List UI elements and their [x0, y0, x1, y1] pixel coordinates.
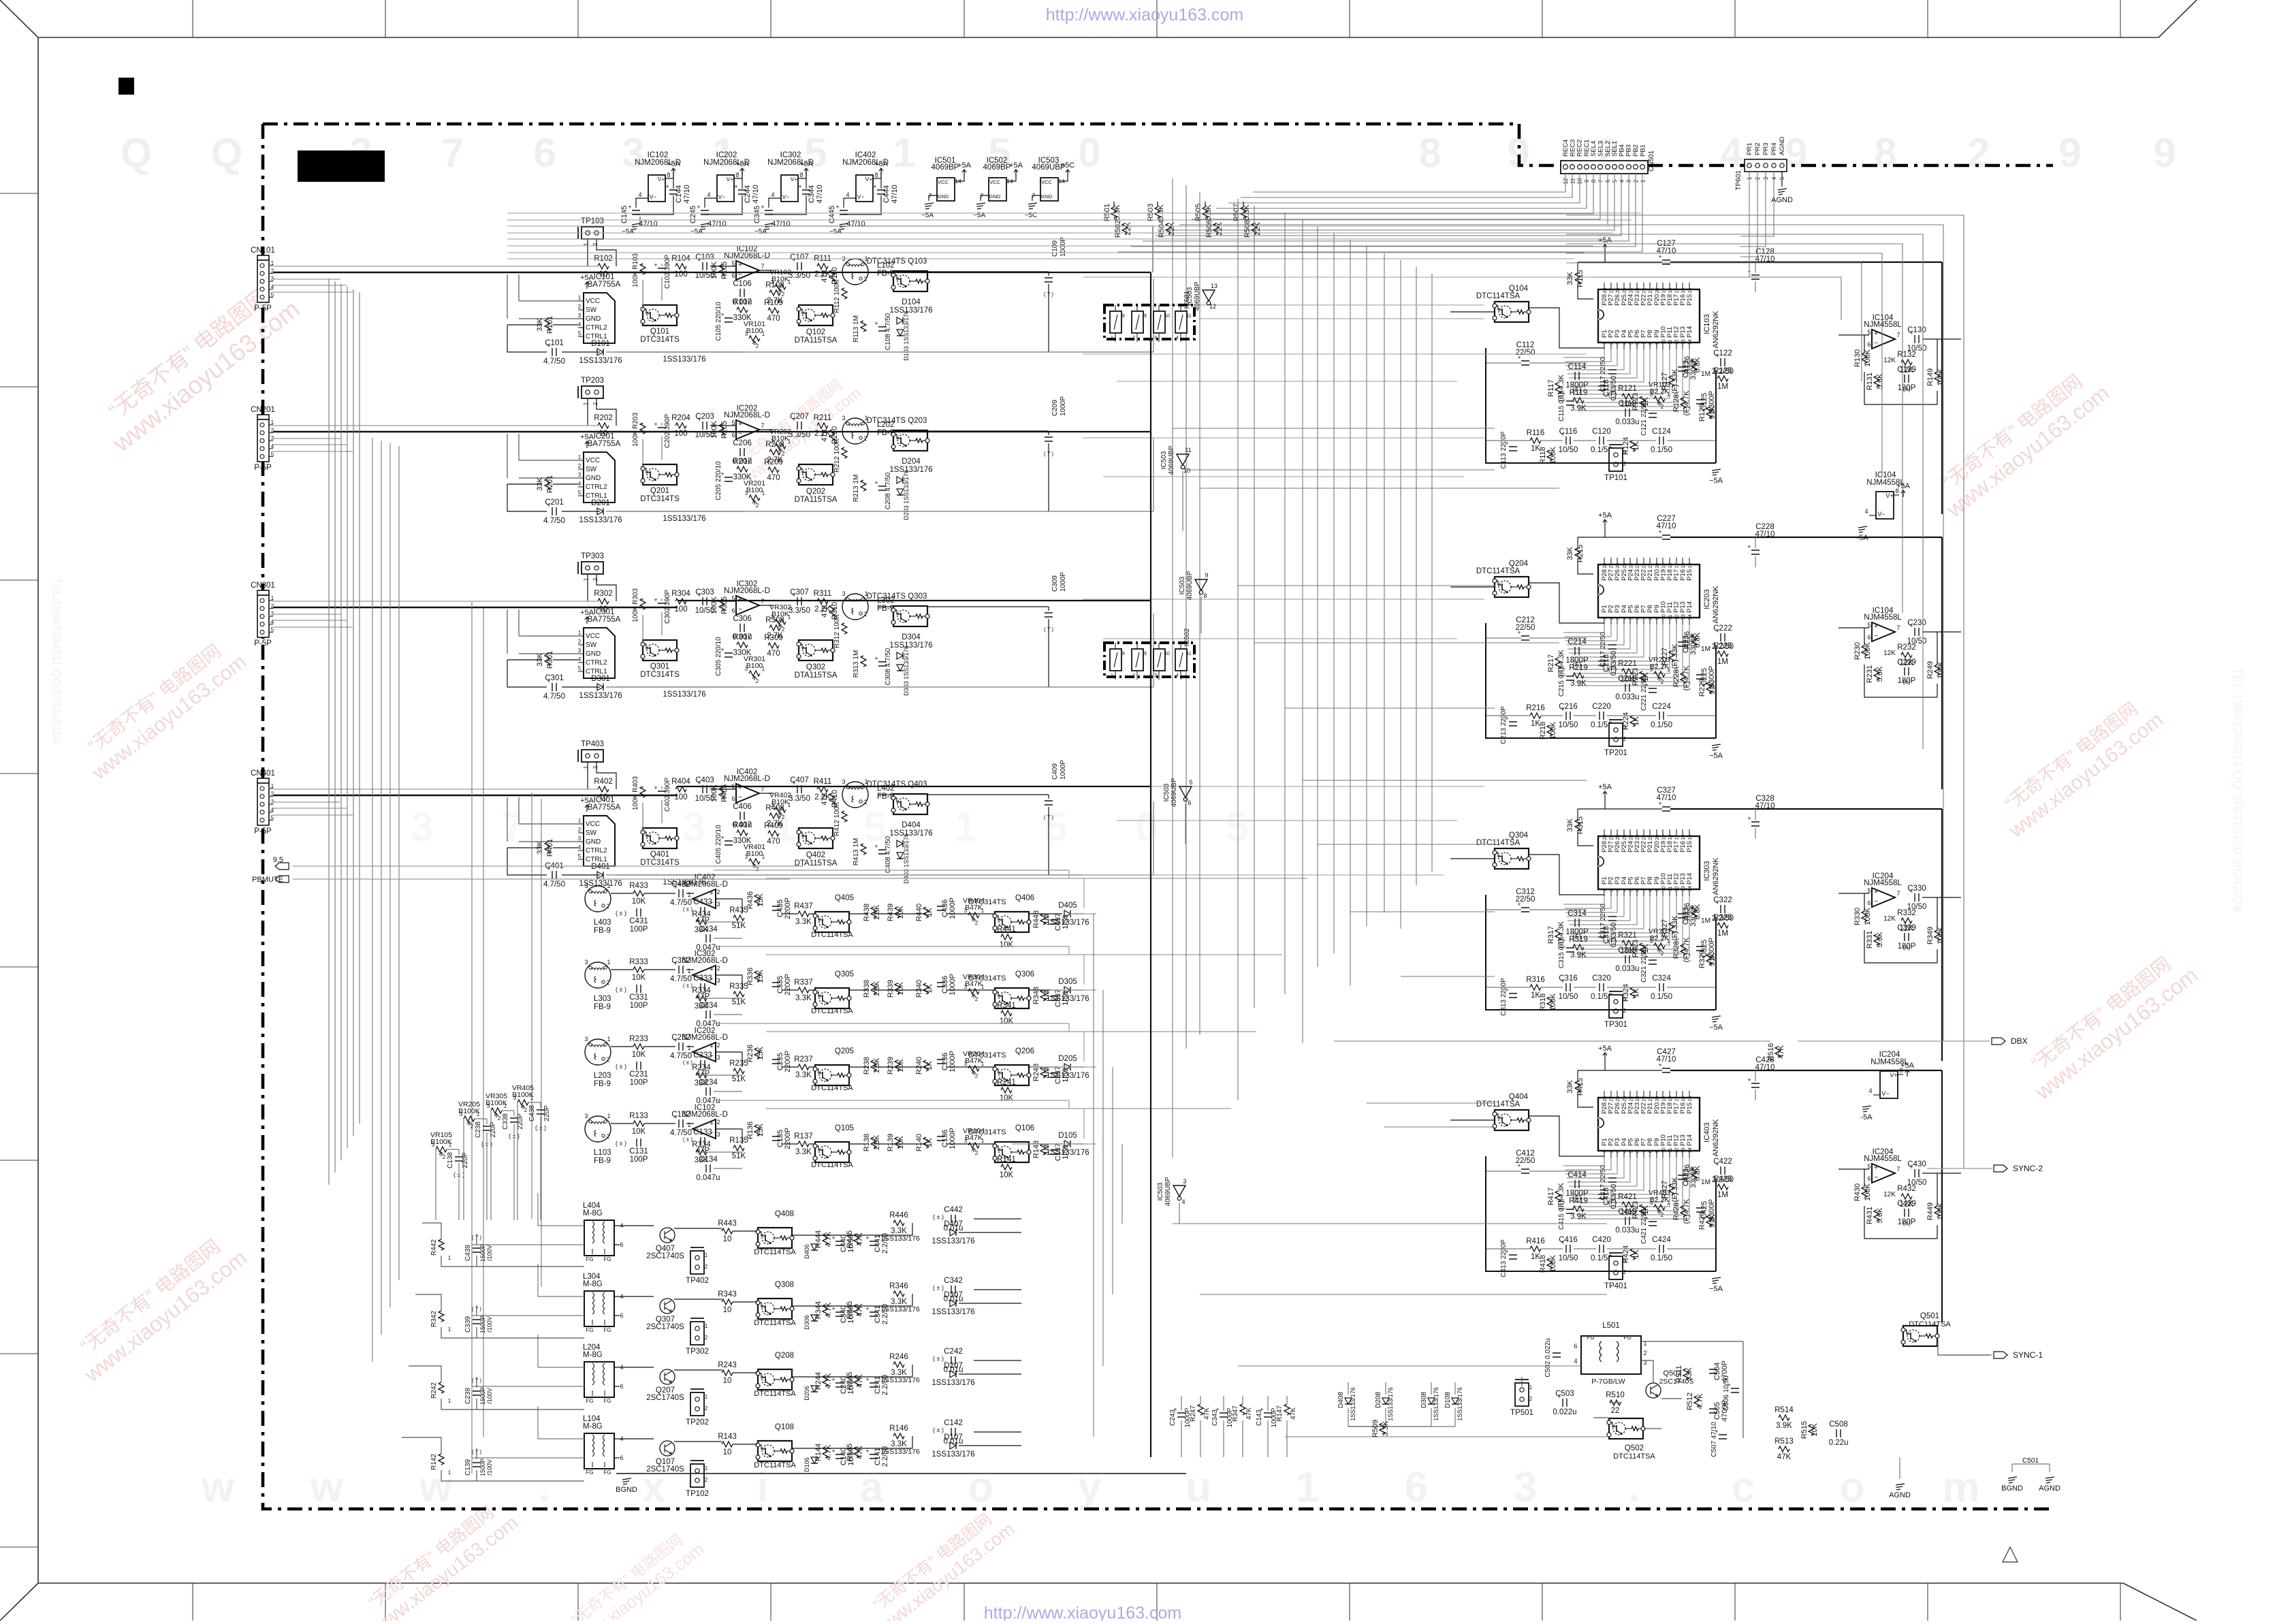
svg-text:DTC114TSA: DTC114TSA	[754, 1461, 796, 1469]
svg-text:10: 10	[723, 1448, 732, 1456]
resistor R347	[1240, 1404, 1245, 1415]
svg-text:P-5P: P-5P	[254, 639, 272, 648]
test point TP203	[582, 386, 603, 398]
svg-text:10/50: 10/50	[1559, 446, 1578, 454]
svg-text:+5A: +5A	[874, 160, 889, 168]
svg-text:47/10: 47/10	[639, 220, 658, 228]
svg-text:+: +	[1747, 1077, 1751, 1083]
capacitor C101	[552, 348, 556, 356]
svg-text:1000P: 1000P	[1060, 396, 1067, 416]
diode D308	[1428, 1398, 1435, 1404]
svg-text:2: 2	[975, 1150, 978, 1156]
capacitor C331	[637, 985, 641, 993]
svg-text:11: 11	[1186, 314, 1191, 319]
power +5A	[1905, 1070, 1909, 1077]
svg-text:47K: 47K	[1777, 1453, 1792, 1461]
svg-text:2: 2	[1623, 1269, 1627, 1275]
resistor R210	[829, 430, 835, 441]
svg-text:DTC114TSA: DTC114TSA	[754, 1390, 796, 1398]
wire cap rail	[705, 172, 742, 214]
svg-text:DTC114TSA: DTC114TSA	[1613, 1452, 1655, 1461]
svg-text:PBMUTE: PBMUTE	[252, 876, 283, 884]
resistor R213	[861, 480, 866, 491]
svg-text:5: 5	[271, 291, 274, 298]
inductor	[585, 962, 611, 988]
resistor R323	[1640, 943, 1645, 954]
svg-text:C122: C122	[1713, 349, 1732, 357]
svg-text:Q306: Q306	[1015, 970, 1034, 978]
resistor R105	[719, 265, 725, 276]
resistor R301	[545, 654, 550, 665]
resistor R246	[893, 1362, 904, 1367]
svg-text:c: c	[1732, 1464, 1755, 1511]
svg-text:3.9K: 3.9K	[1570, 951, 1587, 959]
svg-text:R209: R209	[764, 458, 783, 466]
diode D203	[897, 489, 904, 495]
svg-text:C434: C434	[699, 925, 718, 934]
svg-text:+: +	[710, 1043, 714, 1051]
svg-text:C338: C338	[502, 1113, 509, 1130]
svg-text:Q308: Q308	[775, 1281, 794, 1289]
svg-text:7: 7	[761, 422, 764, 429]
svg-text:2SC1740S: 2SC1740S	[646, 1252, 684, 1260]
svg-text:R430: R430	[1853, 1183, 1862, 1201]
wire mid band horizontals	[1083, 277, 1593, 875]
wire diode	[1348, 1382, 1431, 1427]
diode D301	[597, 684, 603, 690]
wire vr step	[518, 1102, 541, 1220]
transistor	[758, 1228, 792, 1248]
svg-text:R438: R438	[863, 904, 871, 921]
wire opamp	[710, 423, 773, 430]
resistor R443	[722, 1228, 733, 1234]
capacitor C114	[1575, 372, 1579, 380]
svg-text:R508: R508	[1243, 220, 1252, 238]
svg-text:2: 2	[756, 866, 759, 872]
svg-text:C321 22/25: C321 22/25	[1640, 947, 1648, 983]
svg-text:12K: 12K	[1883, 650, 1896, 657]
svg-text:R107: R107	[733, 298, 752, 306]
wire xfmr row	[620, 1219, 1021, 1235]
svg-text:−5A: −5A	[829, 228, 842, 236]
capacitor C134	[706, 1164, 710, 1173]
svg-text:7: 7	[1642, 617, 1647, 620]
svg-text:R141: R141	[997, 1156, 1016, 1164]
svg-text:D308: D308	[1420, 1392, 1428, 1408]
svg-text:2: 2	[863, 276, 867, 283]
svg-text:4: 4	[578, 481, 582, 487]
resistor R513	[1779, 1446, 1789, 1452]
inverter IC503	[1173, 1185, 1185, 1196]
svg-text:1: 1	[1623, 1258, 1627, 1264]
svg-text:C116: C116	[1559, 428, 1578, 436]
svg-text:100P: 100P	[630, 1002, 648, 1010]
svg-text:AGND: AGND	[1779, 136, 1786, 155]
svg-text:R229: R229	[1698, 679, 1706, 697]
svg-text:R439: R439	[887, 904, 895, 921]
svg-text:18: 18	[1668, 835, 1673, 840]
transistor	[995, 1142, 1029, 1162]
svg-text:100K R303: 100K R303	[632, 588, 639, 622]
ground	[976, 203, 985, 209]
wire xfmr row	[620, 1290, 1021, 1306]
capacitor C125	[1696, 400, 1704, 404]
svg-text:−: −	[1874, 898, 1878, 906]
node SYNC-1	[1994, 1352, 2007, 1358]
svg-text:(F): (F)	[1608, 391, 1617, 398]
svg-text:2: 2	[498, 1115, 501, 1121]
capacitor C203	[703, 421, 707, 430]
resistor R239	[895, 1060, 900, 1071]
svg-text:C202 390P: C202 390P	[664, 414, 671, 448]
svg-text:D403 1SS133/176: D403 1SS133/176	[903, 833, 910, 884]
svg-text:1SS133/176: 1SS133/176	[663, 355, 705, 364]
svg-text:2: 2	[1623, 1008, 1627, 1014]
capacitor C209	[1045, 437, 1053, 441]
svg-text:16: 16	[1681, 563, 1686, 569]
svg-text:DTA115TSA: DTA115TSA	[795, 671, 838, 680]
op-amp IC104	[1872, 330, 1895, 349]
capacitor C138	[455, 1157, 463, 1161]
svg-text:GND: GND	[586, 650, 601, 658]
svg-text:C506 10/50: C506 10/50	[1723, 1375, 1730, 1411]
test point TP401	[1609, 1256, 1623, 1279]
svg-text:R326: R326	[1683, 903, 1691, 921]
svg-text:CTRL2: CTRL2	[586, 659, 607, 667]
resistor R112	[842, 288, 847, 299]
wire opamp	[710, 786, 773, 793]
svg-text:3: 3	[411, 804, 433, 850]
svg-text:6: 6	[1636, 617, 1640, 620]
svg-text:3: 3	[682, 804, 705, 850]
svg-text:CN101: CN101	[251, 246, 275, 255]
wire pin2 spine thick	[273, 795, 678, 796]
capacitor C438	[537, 1110, 545, 1114]
svg-text:C307: C307	[790, 588, 809, 596]
capacitor C233	[701, 1060, 705, 1068]
svg-text:1SS133/176: 1SS133/176	[889, 641, 932, 650]
wire fb	[696, 998, 742, 1015]
svg-text:19: 19	[1661, 1096, 1666, 1102]
svg-text:2: 2	[1661, 1212, 1664, 1218]
resistor R127	[1669, 376, 1674, 387]
svg-text:1: 1	[1603, 617, 1608, 620]
wire tp drops	[588, 762, 616, 789]
svg-text:C106: C106	[733, 280, 752, 288]
svg-text:PR2: PR2	[1754, 143, 1762, 155]
op-amp IC402	[736, 784, 759, 803]
svg-text:100K: 100K	[710, 596, 718, 614]
resistor R233	[633, 1044, 644, 1049]
svg-text:3: 3	[1514, 1464, 1537, 1511]
capacitor	[1751, 822, 1760, 826]
wire opamp cluster	[1839, 1169, 1961, 1239]
svg-text:R505: R505	[1194, 204, 1203, 221]
svg-text:C502 0.022u: C502 0.022u	[1544, 1338, 1552, 1377]
resistor R433	[633, 891, 644, 896]
svg-text:15: 15	[1688, 563, 1693, 569]
svg-text:2: 2	[782, 291, 785, 298]
svg-text:2: 2	[271, 428, 274, 434]
svg-text:(±): (±)	[1903, 944, 1911, 951]
svg-text:D305: D305	[1058, 978, 1077, 986]
svg-text:2: 2	[863, 435, 867, 442]
svg-text:12: 12	[1675, 614, 1680, 620]
svg-text:+5A: +5A	[580, 433, 594, 441]
svg-text:C107: C107	[790, 253, 809, 261]
svg-text:R204: R204	[671, 414, 690, 422]
svg-text:−5A: −5A	[1709, 752, 1723, 760]
svg-text:C430: C430	[1907, 1160, 1926, 1168]
svg-text:100: 100	[674, 793, 687, 801]
svg-text:3: 3	[1154, 336, 1157, 340]
svg-text:P-5P: P-5P	[254, 464, 272, 472]
svg-text:C215 0.1u: C215 0.1u	[1558, 665, 1565, 697]
svg-text:C144: C144	[675, 185, 683, 203]
svg-text:C501: C501	[2022, 1457, 2039, 1465]
resistor R410	[829, 793, 835, 804]
svg-text:FG: FG	[586, 1256, 593, 1262]
capacitor C409	[1045, 801, 1053, 805]
resistor R115	[1575, 273, 1580, 284]
svg-text:R213 1M: R213 1M	[853, 475, 860, 503]
capacitor C118 C118	[1598, 386, 1606, 390]
svg-text:1SS133/176: 1SS133/176	[932, 1237, 974, 1245]
resistor R102	[598, 264, 609, 269]
IC IC303 AN6292NK	[1598, 836, 1700, 889]
op-amp IC202	[736, 420, 759, 439]
svg-text:C344: C344	[808, 185, 816, 203]
svg-text:+: +	[835, 204, 839, 210]
svg-text:10: 10	[723, 1306, 732, 1314]
svg-text:Q102: Q102	[806, 328, 825, 336]
wire pin2 spine thick	[273, 607, 678, 608]
svg-text:R329: R329	[1698, 951, 1706, 968]
op-amp IC204	[1872, 1164, 1895, 1183]
svg-text:9: 9	[1205, 572, 1208, 579]
resistor R317	[1555, 929, 1561, 940]
svg-text:47/10: 47/10	[683, 185, 691, 204]
svg-text:D406: D406	[803, 1244, 810, 1259]
resistor R231	[1874, 669, 1879, 680]
svg-text:2: 2	[578, 827, 582, 833]
svg-text:−: −	[738, 606, 742, 614]
svg-text:0.047u: 0.047u	[696, 1174, 720, 1182]
capacitor C201	[552, 507, 556, 515]
svg-text:100K: 100K	[1864, 907, 1872, 925]
transistor Q304	[1495, 848, 1529, 869]
svg-text:AN6292NK: AN6292NK	[1712, 311, 1720, 349]
resistor R324	[1630, 987, 1636, 998]
svg-text:10K: 10K	[632, 1128, 646, 1136]
svg-text:C114: C114	[1568, 363, 1587, 371]
svg-text:100K: 100K	[1549, 721, 1557, 739]
svg-text:PR3: PR3	[1762, 143, 1770, 155]
resistor R241	[1001, 1087, 1012, 1093]
resistor R203	[640, 423, 646, 434]
inverter IC503	[1195, 579, 1207, 590]
svg-text:21: 21	[1649, 1096, 1653, 1102]
svg-text:C438: C438	[528, 1105, 536, 1121]
connector TP601	[1745, 159, 1787, 172]
svg-text:DTC314TS: DTC314TS	[968, 974, 1006, 983]
transistor	[1646, 1383, 1661, 1398]
svg-text:C433: C433	[693, 898, 712, 906]
capacitor C135	[772, 1136, 780, 1141]
svg-text:−: −	[1874, 340, 1878, 347]
svg-text:28: 28	[1603, 288, 1608, 293]
resistor R119	[1573, 398, 1584, 403]
wire IC bottom pin drops	[1563, 349, 1689, 411]
svg-text:47/10: 47/10	[1755, 802, 1775, 810]
svg-text:VCC: VCC	[586, 633, 600, 640]
svg-text:4.7K: 4.7K	[1696, 1393, 1704, 1409]
transistor	[799, 305, 833, 325]
svg-text:P15: P15	[1686, 294, 1693, 306]
resistor R404	[675, 786, 686, 792]
capacitor C440	[835, 1241, 844, 1245]
svg-text:P-7GB/LW: P-7GB/LW	[1591, 1378, 1625, 1386]
svg-text:P15: P15	[1686, 569, 1693, 581]
svg-text:Q108: Q108	[775, 1423, 794, 1431]
capacitor C323	[1678, 914, 1686, 918]
resistor R412	[842, 811, 847, 822]
wire d101 out	[606, 511, 742, 512]
svg-text:6: 6	[1867, 1175, 1871, 1182]
svg-text:3: 3	[1616, 617, 1621, 620]
svg-text:FG: FG	[1587, 1335, 1594, 1341]
svg-text:220P: 220P	[543, 1105, 551, 1121]
svg-text:( ± ): ( ± )	[683, 1060, 693, 1066]
transistor	[758, 1299, 792, 1319]
svg-text:10: 10	[1164, 314, 1170, 319]
svg-text:NJM4558L: NJM4558L	[1864, 879, 1902, 887]
svg-text:-5A: -5A	[1856, 534, 1868, 542]
power +5C	[1066, 170, 1070, 176]
capacitor C213	[1509, 722, 1517, 726]
svg-text:23: 23	[1636, 1096, 1640, 1102]
svg-text:47K: 47K	[856, 1374, 864, 1388]
svg-text:10/50: 10/50	[1559, 721, 1578, 729]
inductor	[585, 886, 611, 912]
svg-text:47/10: 47/10	[891, 185, 899, 204]
svg-text:C305 220/10: C305 220/10	[715, 637, 722, 676]
svg-text:(F) 33K: (F) 33K	[1671, 643, 1679, 669]
diode D406	[811, 1244, 818, 1250]
svg-text:11: 11	[1668, 1148, 1673, 1153]
svg-text:C308 4.7/50: C308 4.7/50	[885, 648, 892, 685]
svg-text:C115 0.1u: C115 0.1u	[1558, 390, 1565, 421]
resistor R336	[754, 971, 760, 982]
wire c112	[1486, 637, 1587, 639]
svg-text:R418: R418	[1539, 1255, 1547, 1273]
resistor R215	[1575, 548, 1580, 559]
svg-text:DTC314TS: DTC314TS	[640, 859, 680, 867]
svg-text:+: +	[1874, 889, 1878, 896]
capacitor C306	[740, 624, 744, 632]
svg-text:FG: FG	[586, 1469, 593, 1476]
wire opamp cluster	[1839, 628, 1961, 697]
svg-text:R506: R506	[1205, 220, 1213, 238]
svg-text:R502: R502	[1114, 220, 1122, 238]
svg-text:1: 1	[1640, 179, 1646, 182]
resistor R225	[1717, 651, 1728, 656]
svg-text:7: 7	[761, 263, 764, 270]
diode D201	[597, 508, 603, 515]
wire tp drops	[588, 239, 616, 266]
capacitor C441	[870, 1241, 878, 1245]
power +5A	[1603, 520, 1607, 526]
svg-text:R236: R236	[746, 1045, 754, 1062]
svg-text:+5A: +5A	[1598, 511, 1612, 520]
svg-text:+: +	[738, 261, 742, 269]
svg-text:2: 2	[592, 402, 599, 405]
svg-text:47K: 47K	[1245, 1407, 1253, 1420]
svg-text:R307: R307	[733, 633, 752, 641]
inverter IC503	[1203, 290, 1215, 301]
svg-text:4: 4	[1623, 617, 1627, 620]
wire c128 down	[1755, 262, 1756, 292]
test point TP303	[582, 562, 603, 574]
resistor R337	[798, 987, 809, 993]
capacitor C439	[473, 1248, 481, 1252]
transformer L404	[584, 1220, 614, 1256]
capacitor C338	[510, 1118, 518, 1122]
svg-text:33K: 33K	[1566, 818, 1574, 832]
svg-text:47K: 47K	[821, 604, 829, 618]
wire pin1 spine	[273, 601, 598, 602]
capacitor C418 C418	[1598, 1194, 1606, 1198]
svg-text:C142: C142	[944, 1419, 963, 1427]
svg-text:10: 10	[1164, 652, 1170, 656]
svg-text:+: +	[873, 183, 876, 190]
svg-text:2: 2	[756, 678, 759, 684]
svg-text:6: 6	[620, 1241, 623, 1248]
svg-text:17: 17	[1675, 563, 1680, 569]
svg-text:+: +	[874, 843, 878, 850]
resistor R212	[842, 447, 847, 458]
capacitor C241	[870, 1383, 878, 1387]
svg-text:V−: V−	[857, 193, 865, 200]
svg-text:4: 4	[271, 284, 274, 290]
trimmer VR402	[775, 807, 786, 812]
resistor R439	[895, 907, 900, 918]
capacitor C224	[1659, 712, 1664, 720]
resistor R227	[1669, 651, 1674, 662]
svg-text:10: 10	[1661, 1147, 1666, 1153]
svg-text:SW: SW	[586, 466, 597, 473]
wire q103	[878, 795, 1049, 875]
resistor R140	[923, 1137, 929, 1148]
svg-text:+: +	[1874, 330, 1878, 338]
svg-text:R449: R449	[1926, 1203, 1935, 1220]
svg-text:R140: R140	[915, 1134, 923, 1151]
power +5A	[962, 170, 966, 176]
resistor R308	[769, 625, 780, 631]
svg-text:R341: R341	[997, 1002, 1016, 1010]
svg-text:3: 3	[1154, 673, 1157, 678]
wire dbx	[1798, 1040, 1990, 1042]
svg-text:0: 0	[1078, 130, 1100, 176]
svg-text:1K: 1K	[1632, 1249, 1640, 1259]
svg-text:1: 1	[607, 882, 610, 889]
svg-text:+: +	[1747, 543, 1751, 550]
capacitor C144	[669, 190, 678, 194]
resistor R344	[823, 1305, 828, 1316]
svg-text:10K: 10K	[632, 897, 646, 906]
resistor R321	[1622, 940, 1633, 946]
diode	[897, 652, 903, 659]
